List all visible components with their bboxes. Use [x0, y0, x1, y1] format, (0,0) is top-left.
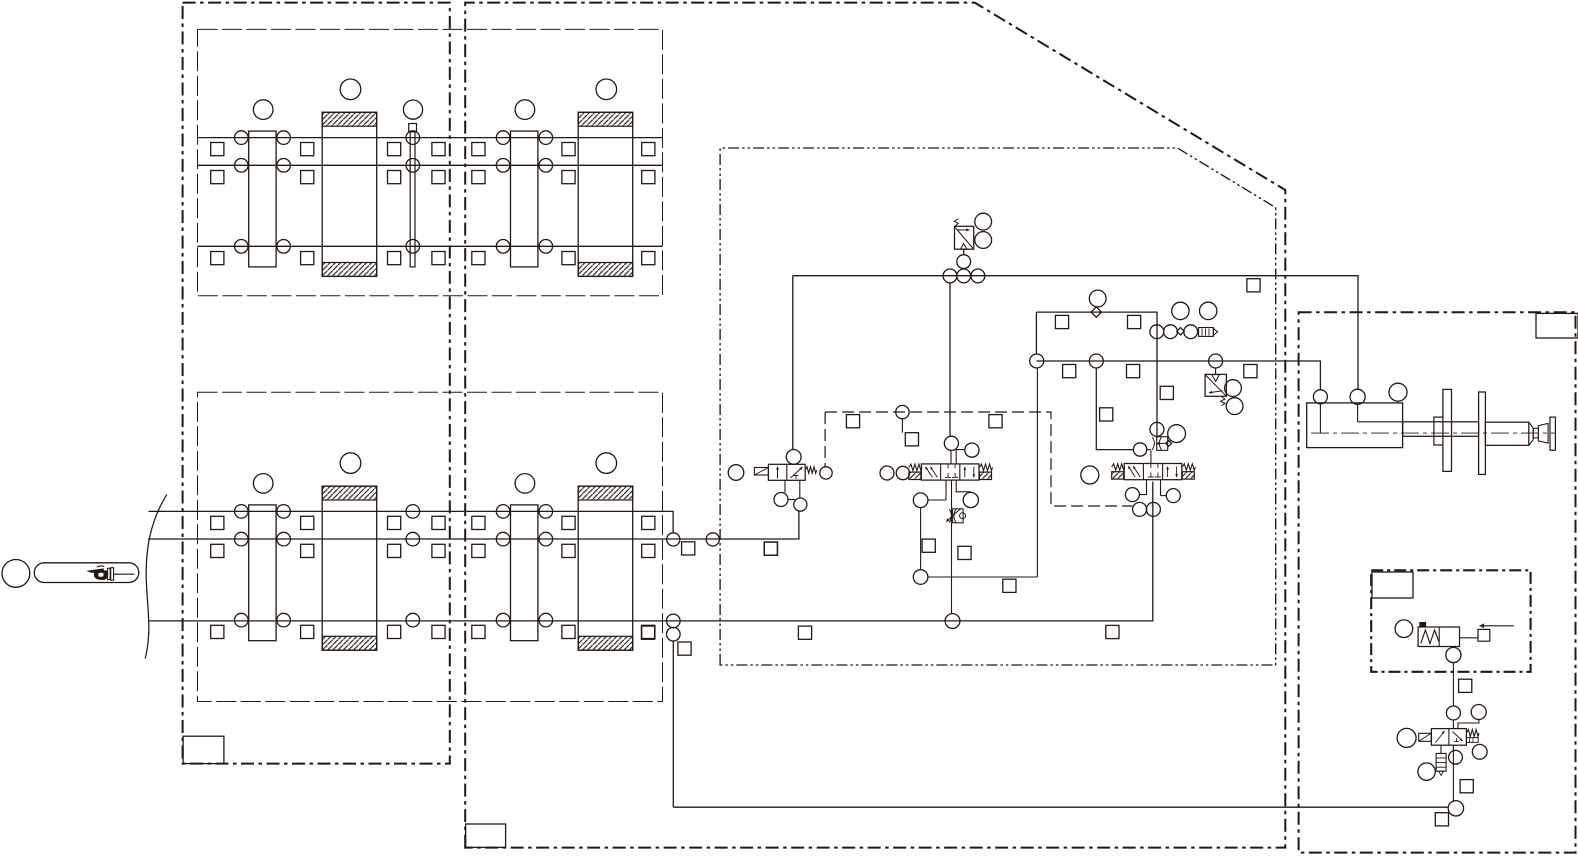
node: circle on V4 riser: [1449, 750, 1463, 764]
roll stand B-upper: port squares: [472, 143, 485, 156]
port square beside V3 riser: [1160, 386, 1173, 399]
wire: pilot line from valve V1 (dashed): [825, 412, 1132, 506]
roll stand B-lower: guide roll bearing circles: [496, 505, 510, 519]
regulator FR1 spring: [954, 219, 958, 226]
valve V2 right spring and pilot block: [980, 464, 993, 471]
node: valve V3 pilot circles: [1133, 502, 1147, 516]
node: second rail circles: [1030, 354, 1044, 368]
roll stand A-upper: main roll gauge circle: [340, 79, 361, 100]
wire: V4 top stub: [1452, 720, 1454, 729]
direction arrow in sub-panel: [1480, 625, 1514, 627]
port square beside manifold drop: [1003, 579, 1016, 592]
node: circle above valve V4: [1446, 706, 1460, 720]
gun mounting bracket: [1434, 417, 1443, 445]
node: exhaust row diamond: [1177, 328, 1184, 335]
roll stand A-upper: sensor rod: [409, 124, 417, 132]
gun barrel: [1485, 422, 1528, 445]
frame: right section C boundary (chain line): [1299, 312, 1576, 852]
roll stand A-upper: sensor rod line circles: [406, 131, 420, 145]
web break brace: [145, 494, 167, 658]
node: exhaust row circle on valve V3 riser: [1150, 325, 1164, 339]
frame: pneumatic panel boundary with cut corner (dash-dot-dot): [720, 148, 1276, 665]
gauge circle beside V3 riser: [1168, 425, 1186, 443]
node: valve V3 output circles: [1125, 488, 1139, 502]
wire: lower web line 3: [149, 482, 1153, 621]
roll stand A-lower: guide roll body: [249, 505, 276, 641]
valve V2 body: [921, 464, 979, 480]
wire: manifold top rail: [1036, 312, 1157, 438]
valve V4 return spring: [1467, 730, 1480, 737]
roll stand B-upper: main roll with hatched journals: [578, 112, 633, 276]
gun flange bar 1: [1443, 389, 1452, 471]
port square beside V3 feed elbow: [1100, 408, 1113, 421]
lubricator gauge circle: [1395, 620, 1413, 638]
wire: valve V4 output riser: [1452, 745, 1454, 802]
regulator FR1 gauge circles: [975, 213, 992, 230]
roll stand B-upper: guide roll body: [511, 131, 538, 267]
wire: bottom supply line to section C: [673, 806, 1448, 808]
port square below line3 (right): [1106, 625, 1119, 638]
port square beside A-line: [958, 546, 971, 559]
valve V1 return spring: [805, 467, 816, 473]
node: circle on V4 output at supply line: [1448, 801, 1463, 816]
port square below supply line: [1435, 813, 1448, 826]
node: valve V2 output circle on line3: [945, 614, 960, 629]
node: web entry circle: [2, 560, 30, 588]
node: exhaust row circle 3: [1184, 325, 1198, 339]
frame: upper roll group enclosure (dashed): [198, 29, 663, 295]
roll stand A-lower: roll gauge circle: [253, 474, 273, 494]
roll stand A-upper: guide roll bearing circles: [235, 131, 249, 145]
roll stand B-lower: roll gauge circle: [515, 474, 535, 494]
node: V3 feed circle: [1133, 443, 1146, 456]
roll stand B-lower: main roll with hatched journals: [578, 486, 633, 650]
roll stand B-lower: port squares: [472, 516, 485, 529]
port square beside exhaust drop (upper): [922, 539, 935, 552]
title tab of section C: [1536, 313, 1578, 338]
frame: lubricator sub-panel enclosure in section C (chain line): [1371, 570, 1530, 672]
valve V1 body: [768, 464, 805, 480]
wire: upper web line 3: [198, 245, 663, 247]
wire: upper web line 1: [198, 137, 663, 139]
gauge circle bottom-left of valve V4: [1418, 763, 1435, 780]
roll stand A-lower: third column line circles: [406, 505, 420, 519]
roll stand B-lower: main roll gauge circle: [596, 453, 617, 474]
regulator R2 stub: [1215, 368, 1217, 374]
wire: valve V1 output stubs: [784, 480, 786, 492]
regulator R2 spring: [1221, 397, 1226, 406]
node: line3 junction circle upper: [667, 614, 681, 628]
port square below valve V1 drop: [764, 542, 777, 555]
wire: FR1 to header stub: [963, 249, 965, 255]
node: circle above valve V1: [786, 450, 801, 465]
node: exhaust drop circle: [913, 570, 928, 585]
title tab of section A: [183, 736, 224, 763]
wire: pilot junction stub: [901, 419, 903, 433]
gauge circle on gun: [1389, 383, 1407, 401]
node: lubricator outlet circle: [1446, 647, 1461, 662]
gun centre line (chain): [1311, 432, 1556, 434]
applicator gun rod: [1403, 422, 1479, 437]
valve V3 body: [1124, 464, 1182, 480]
label capsule with pointing hand: [34, 563, 139, 583]
roll stand A-lower: main roll with hatched journals: [322, 486, 377, 650]
wire: valve V2 bottom stubs: [945, 480, 947, 500]
port square beside line3 junction: [678, 642, 691, 655]
applicator gun body: [1307, 403, 1403, 448]
roll stand B-lower: guide roll body: [511, 505, 538, 641]
port square below header (right): [1247, 279, 1260, 292]
valve V1 solenoid: [754, 468, 768, 476]
port square right of lubricator: [1478, 629, 1490, 641]
valve V3 right spring and pilot block: [1182, 464, 1195, 470]
roll stand A-lower: port squares: [211, 516, 224, 529]
valve V4 body: [1431, 729, 1466, 746]
gauge circle left of valve V1: [728, 465, 744, 481]
valve V3 left spring and pilot block: [1112, 464, 1125, 470]
wire: V4 right-top elbow: [1458, 719, 1479, 729]
regulator R2 body: [1205, 374, 1226, 396]
node: circle on V3 riser above flow control: [1150, 422, 1164, 436]
wire: main supply header: [793, 276, 1358, 390]
gauge circles right of top rail: [1172, 302, 1189, 319]
port squares below second rail: [1063, 365, 1076, 378]
wire: lubricator down-stub: [1452, 647, 1454, 649]
node: circle below-right of valve V4: [1472, 744, 1487, 759]
wire: lubricator outlet to port square: [1460, 637, 1479, 639]
roll stand A-upper: port squares: [211, 143, 224, 156]
node: circles above valve V2: [944, 436, 958, 450]
gun nozzle parts: [1529, 422, 1533, 445]
roll stand A-upper: sensor rod gauge circle: [403, 100, 422, 119]
valve V4 solenoid: [1419, 733, 1432, 741]
wire: header drop to valve V2: [949, 283, 951, 437]
flow control F3 on valve V3 riser: [1157, 437, 1168, 451]
wire: valve V3 bottom stubs: [1139, 480, 1146, 495]
roll stand A-upper: main roll with hatched journals: [322, 112, 377, 276]
wire: manifold drop from top rail: [1035, 312, 1037, 354]
node: circle above check diamond: [1089, 290, 1106, 307]
port square below line3 (center): [798, 626, 811, 639]
roll stand B-upper: roll gauge circle: [515, 100, 535, 120]
port square on riser: [1459, 679, 1472, 692]
frame: machine section A boundary (chain line): [183, 3, 450, 764]
lubricator valve body: [1418, 627, 1459, 647]
node: FR1 junction circle: [957, 255, 971, 269]
node: check diamond on top rail: [1091, 307, 1101, 317]
wire: upper web line 2: [198, 164, 663, 166]
regulator FR1 body: [955, 226, 974, 249]
node: exhaust row circle 2: [1164, 325, 1178, 339]
wire: header drop to valve V1: [792, 276, 794, 450]
gauge circle left of valve V3: [1081, 466, 1099, 484]
wire: feed elbow to valve V3: [1096, 368, 1133, 450]
roll stand B-upper: guide roll bearing circles: [496, 131, 510, 145]
gun flange bar 2: [1479, 392, 1486, 474]
wire: manifold drop continues to exhaust link: [1036, 368, 1038, 577]
roll stand A-lower: guide roll bearing circles: [235, 505, 249, 519]
valve V2 left spring and pilot block: [909, 464, 922, 471]
wire: V3 feed to flow control: [1147, 449, 1151, 451]
wire: lower web line 2: [148, 511, 799, 540]
node: gun port A circle: [1350, 389, 1365, 404]
frame: lower roll group enclosure (dashed): [198, 392, 663, 701]
port square below line2 (right): [764, 542, 777, 555]
title tab of section B: [466, 824, 506, 847]
gauge circles left of valve V2: [880, 466, 894, 480]
wire: second rail drop circle (gun port B): [1313, 390, 1327, 404]
wire: lower web line 1: [149, 511, 674, 533]
frame: machine section B boundary with cut corner (chain line): [465, 3, 1285, 848]
wire: capsule leader line: [113, 573, 134, 575]
roll stand A-upper: guide roll body: [249, 131, 276, 267]
port square on pilot line (right): [989, 415, 1002, 428]
port square below line3 left of junction: [641, 626, 654, 639]
port square on pilot line (left): [846, 415, 859, 428]
node: valve V1 output circles: [774, 493, 788, 507]
flow control F2 below valve V2: [953, 509, 964, 523]
pointing hand glyph: [86, 568, 104, 573]
wire: valve V2 top stubs: [950, 450, 952, 464]
regulator R2 gauge circles: [1225, 380, 1242, 397]
node: valve V2 output circles: [913, 493, 928, 508]
port square under pilot junction: [905, 433, 918, 446]
silencer on exhaust row: [1199, 328, 1214, 337]
node: pilot circle right of valve V1: [820, 467, 832, 479]
roll stand B-upper: main roll gauge circle: [596, 79, 617, 100]
node: line3 junction circle lower: [667, 627, 681, 641]
roll stand A-upper: roll gauge circle: [253, 100, 273, 120]
wire: valve V2 exhaust drop: [920, 508, 922, 570]
silencer below valve V4: [1440, 745, 1442, 753]
wire: manifold second rail: [1036, 361, 1320, 390]
gauge circle left of valve V4: [1397, 728, 1416, 747]
node: pilot line junction circle: [896, 405, 909, 418]
node: line2 junction circle: [706, 533, 719, 546]
port square at V4 output: [1460, 780, 1473, 793]
wire: exhaust link to manifold drop: [928, 576, 1038, 578]
port square below line2 (left): [682, 542, 695, 555]
node: line1-line2 junction circle: [667, 533, 680, 546]
node: header junction circles: [943, 269, 957, 283]
title tab of lubricator sub-panel: [1372, 572, 1413, 598]
wire: supply riser in section C: [1452, 662, 1454, 706]
node: circle right-above valve V4: [1471, 705, 1486, 720]
roll stand A-lower: main roll gauge circle: [340, 453, 361, 474]
wire: drop from line3 to bottom supply line: [672, 641, 674, 807]
wire: valve V2 A-line down to line3: [951, 480, 953, 613]
port squares below top rail: [1055, 315, 1068, 328]
